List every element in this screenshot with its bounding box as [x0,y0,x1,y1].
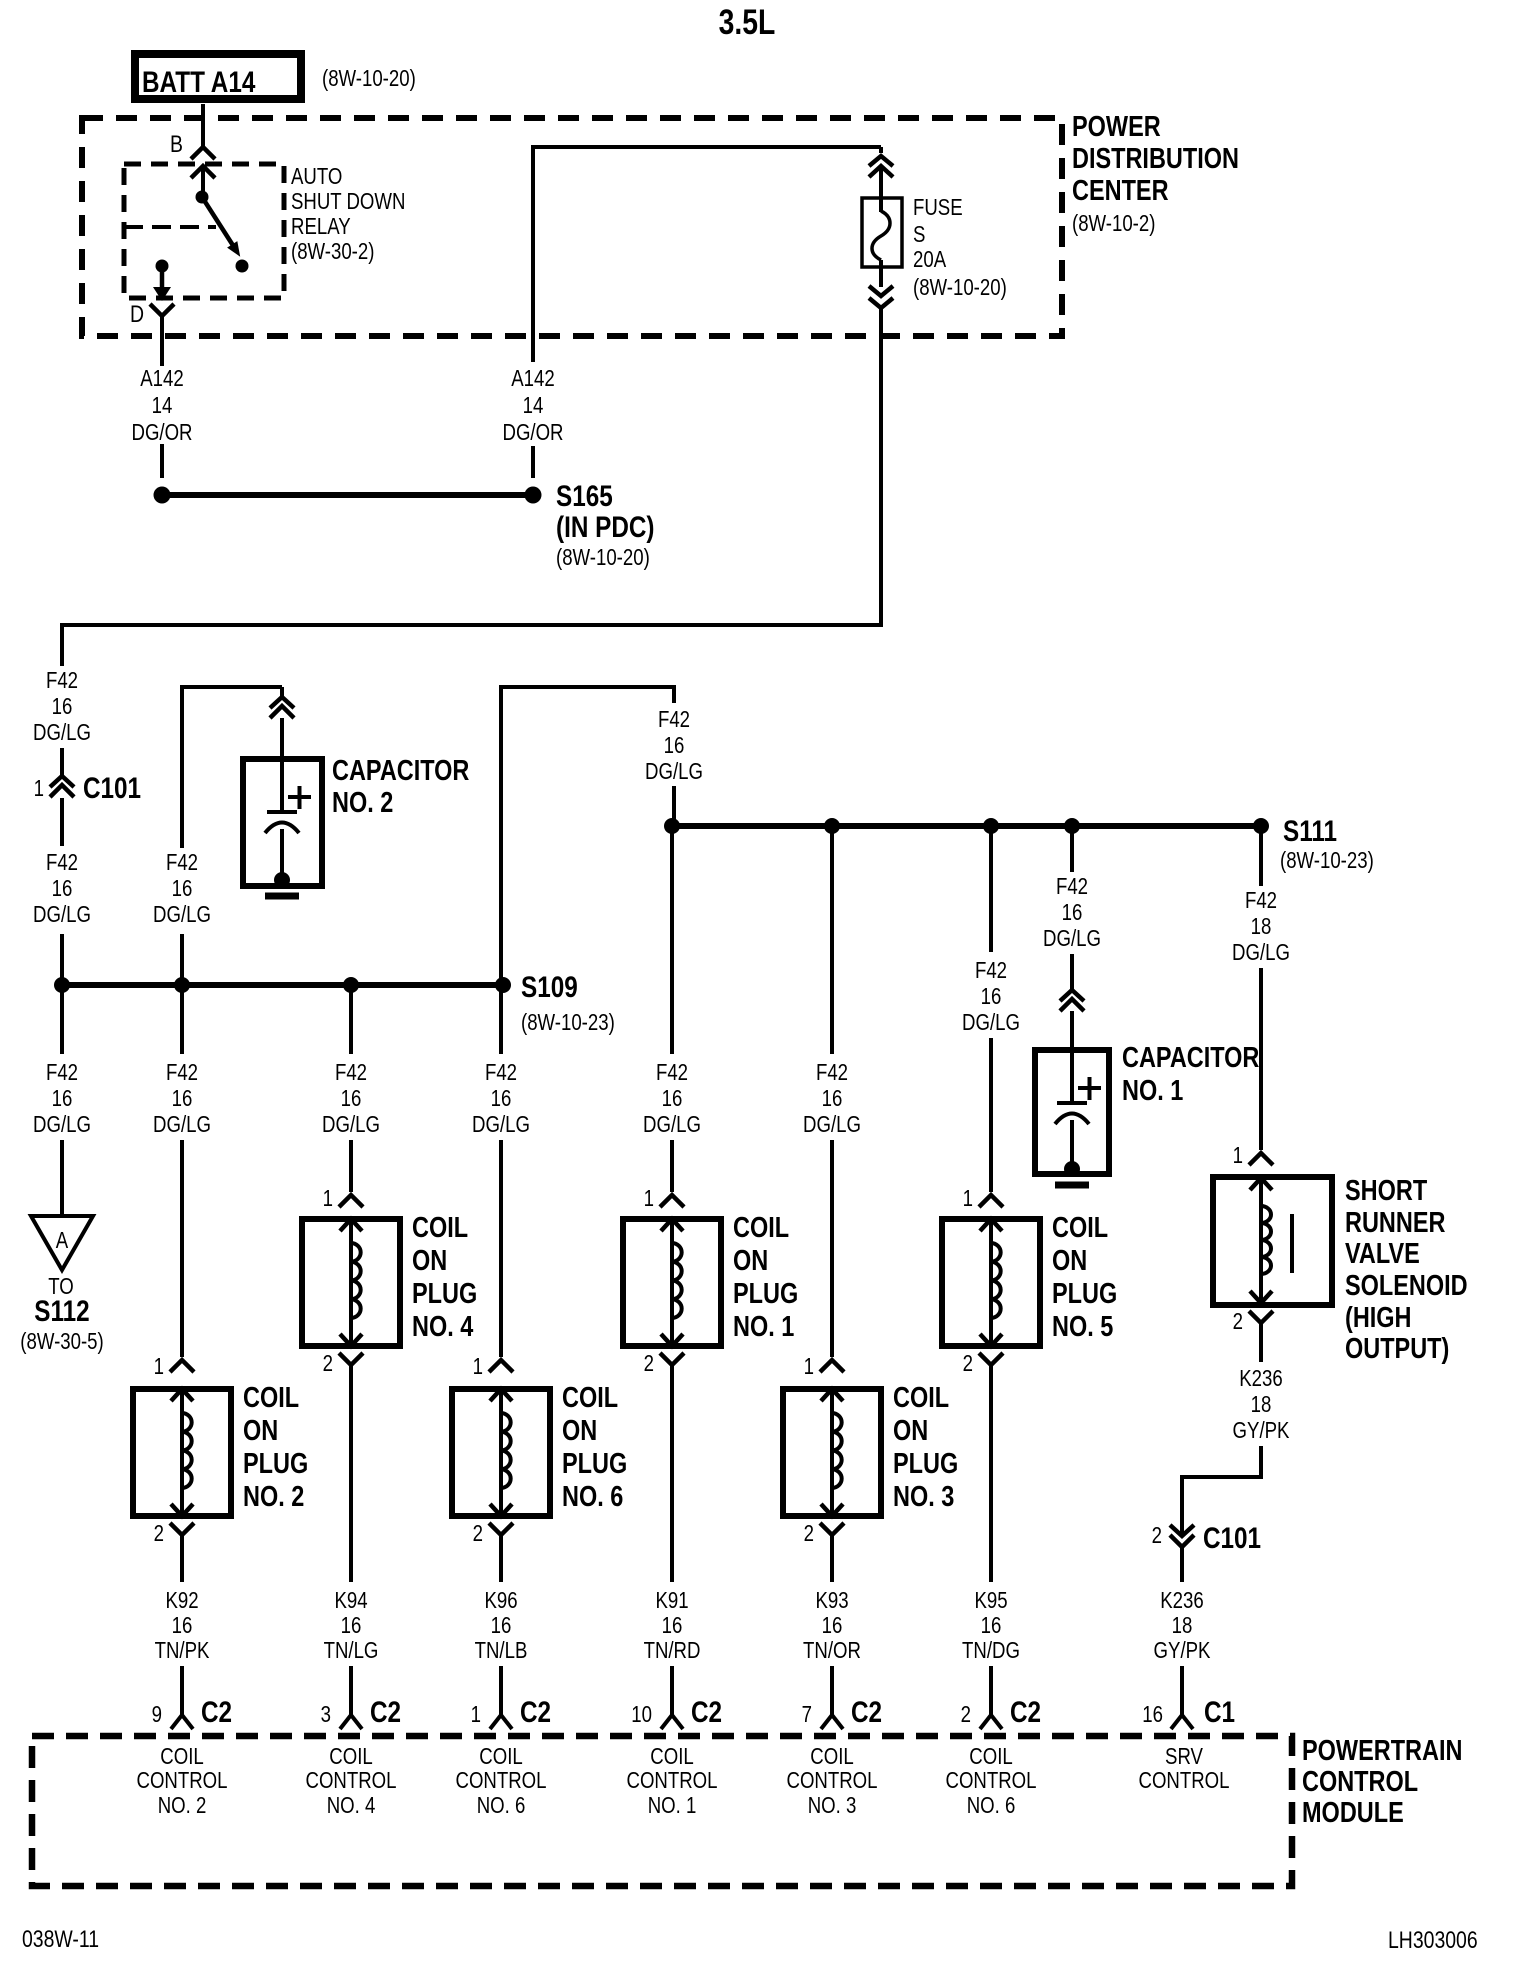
svg-text:A: A [56,1228,68,1253]
capacitor C2 box (capacitor no.2) [243,759,322,886]
svg-text:TN/LG: TN/LG [324,1638,379,1663]
capacitor no.1 internal wire and plates [1055,1011,1089,1166]
svg-text:(8W-30-5): (8W-30-5) [20,1329,103,1354]
label (8W-10-20) battery feed [322,66,416,91]
label TO S112 (8W-30-5) [20,1274,103,1354]
label COIL CONTROL NO. 6 (pin at x=991) [946,1744,1037,1818]
relay output node [156,260,169,273]
svg-text:16: 16 [52,694,73,719]
svg-text:NO. 6: NO. 6 [477,1793,526,1818]
capacitor no.2 ground node [274,872,290,888]
svg-text:VALVE: VALVE [1345,1237,1420,1270]
svg-text:OUTPUT): OUTPUT) [1345,1332,1449,1365]
svg-text:16: 16 [662,1086,683,1111]
svg-text:NO. 3: NO. 3 [808,1793,857,1818]
svg-text:1: 1 [471,1702,481,1727]
svg-text:10: 10 [631,1702,652,1727]
svg-text:TN/OR: TN/OR [803,1638,861,1663]
wire label F42 16 DG/LG S111 feed [645,707,703,784]
svg-text:DG/LG: DG/LG [1043,926,1101,951]
connector fork PCM pin 9 [171,1715,193,1729]
svg-text:CONTROL: CONTROL [137,1768,228,1793]
wire A142 from S165 up to fuse [531,145,881,478]
capacitor no.1 ground node [1064,1161,1080,1177]
svg-text:CAPACITOR: CAPACITOR [1122,1041,1259,1074]
svg-text:14: 14 [523,393,544,418]
svg-text:038W-11: 038W-11 [22,1925,99,1952]
wire coil no.3 to PCM (K93) [830,1535,834,1582]
svg-text:F42: F42 [46,1060,78,1085]
svg-text:16: 16 [341,1613,362,1638]
svg-text:DG/LG: DG/LG [1232,940,1290,965]
svg-text:CAPACITOR: CAPACITOR [332,754,469,787]
svg-text:K236: K236 [1239,1366,1282,1391]
wire into capacitor no.1 [1070,954,1074,990]
wire S109 to S111 bridge [499,685,676,982]
svg-text:F42: F42 [975,958,1007,983]
label pin 1 coil no.4 [323,1186,333,1211]
junction node S109 at coil no.4 branch [343,977,359,993]
label S109 (8W-10-23) [521,970,615,1036]
connector coil no.1 pin 1 [660,1195,684,1207]
svg-text:DG/LG: DG/LG [33,902,91,927]
svg-text:F42: F42 [1245,888,1277,913]
wire label K236 18 GY/PK lower [1154,1588,1211,1663]
svg-text:SHUT DOWN: SHUT DOWN [291,189,405,214]
connector coil no.5 pin 2 [979,1353,1003,1365]
wire label K93 16 TN/OR [803,1588,861,1663]
wire into C101 pin 1 [60,748,64,776]
svg-text:16: 16 [52,876,73,901]
svg-text:2: 2 [1233,1309,1243,1334]
svg-text:CONTROL: CONTROL [787,1768,878,1793]
svg-text:K96: K96 [484,1588,517,1613]
svg-text:16: 16 [981,1613,1002,1638]
coil no.1 winding [661,1219,683,1346]
svg-text:SHORT: SHORT [1345,1174,1427,1207]
ground tick below capacitor no.1 [1055,1182,1089,1189]
wire label K236 18 GY/PK upper [1233,1366,1290,1443]
connector coil no.6 pin 2 [489,1523,513,1535]
connector coil no.3 pin 1 [820,1360,844,1372]
svg-text:16: 16 [172,876,193,901]
powertrain control module dashed box [32,1736,1292,1886]
svg-text:7: 7 [802,1702,812,1727]
svg-text:SRV: SRV [1165,1744,1203,1769]
coil on plug no.3 box [783,1389,881,1516]
label CAPACITOR NO. 2 [332,754,469,819]
auto shut down relay dashed box [124,164,284,298]
wire label F42 16 DG/LG triangle branch [33,1060,91,1137]
wire coil no.1 to PCM (K91) [670,1365,674,1582]
power distribution center dashed box [82,118,1062,336]
label pin 2 coil no.4 [323,1351,333,1376]
svg-text:COIL: COIL [1052,1211,1108,1244]
svg-text:F42: F42 [46,668,78,693]
label SHORT RUNNER VALVE SOLENOID (HIGH OUTPUT) [1345,1174,1468,1365]
wire fuse output to F42 branch [60,306,883,666]
svg-text:F42: F42 [658,707,690,732]
svg-text:(8W-10-23): (8W-10-23) [521,1010,615,1035]
capacitor no.1 polarity + [1078,1077,1101,1100]
label pin 2 coil no.5 [963,1351,973,1376]
connector fork PCM pin 10 [661,1715,683,1729]
splice S109 bus wire [62,982,503,988]
label COIL ON PLUG NO. 6 [562,1381,627,1513]
svg-text:14: 14 [152,393,173,418]
label S165 (IN PDC) (8W-10-20) [556,479,654,571]
connector C101 pin 2 [1170,1525,1194,1547]
wire to SRV solenoid pin 1 [1259,968,1263,1150]
svg-text:ON: ON [562,1414,597,1447]
svg-text:NO. 2: NO. 2 [158,1793,207,1818]
svg-text:(HIGH: (HIGH [1345,1301,1412,1334]
svg-text:F42: F42 [335,1060,367,1085]
svg-text:2: 2 [644,1351,654,1376]
label pin 1 coil no.6 [473,1354,483,1379]
label pin 1 SRV solenoid [1233,1143,1243,1168]
svg-text:1: 1 [34,776,44,801]
svg-text:TN/RD: TN/RD [644,1638,701,1663]
svg-text:K236: K236 [1160,1588,1203,1613]
wire coil no.2 to PCM (K92) [180,1535,184,1582]
wire label F42 16 DG/LG coil no.6 [472,1060,530,1137]
label COIL ON PLUG NO. 1 [733,1211,798,1343]
capacitor C1 box (capacitor no.1) [1035,1050,1109,1174]
label COIL CONTROL NO. 6 (pin at x=501) [456,1744,547,1818]
short runner valve solenoid box [1213,1177,1332,1305]
svg-text:DG/OR: DG/OR [131,420,192,445]
svg-text:C101: C101 [1203,1521,1261,1555]
svg-text:ON: ON [733,1244,768,1277]
svg-text:C2: C2 [691,1695,722,1729]
svg-text:NO. 4: NO. 4 [412,1310,474,1343]
connector coil no.5 pin 1 [979,1195,1003,1207]
coil no.5 winding [980,1219,1002,1346]
wire label F42 18 DG/LG [1232,888,1290,965]
relay output arrow to pin D [153,266,171,301]
svg-text:ON: ON [1052,1244,1087,1277]
wire coil no.5 to PCM (K95) [989,1365,993,1582]
svg-text:CONTROL: CONTROL [946,1768,1037,1793]
wire label F42 16 DG/LG coil no.3 [803,1060,861,1137]
relay switch arm [202,197,240,257]
svg-text:A142: A142 [511,366,554,391]
wire into PCM pin 10 [670,1666,674,1717]
label A in triangle [56,1228,68,1253]
svg-text:CONTROL: CONTROL [456,1768,547,1793]
wire label F42 16 DG/LG coil no.2 [153,1060,211,1137]
wire into PCM pin 3 [349,1666,353,1717]
svg-text:(8W-10-2): (8W-10-2) [1072,211,1155,236]
svg-text:DG/LG: DG/LG [962,1010,1020,1035]
label COIL ON PLUG NO. 2 [243,1381,308,1513]
svg-text:F42: F42 [166,1060,198,1085]
wire label F42 16 DG/LG capacitor no.1 [1043,874,1101,951]
svg-text:COIL: COIL [969,1744,1012,1769]
svg-text:COIL: COIL [893,1381,949,1414]
label pin 2 coil no.3 [804,1521,814,1546]
svg-text:18: 18 [1172,1613,1193,1638]
svg-text:A142: A142 [140,366,183,391]
label POWERTRAIN CONTROL MODULE [1302,1734,1462,1829]
wire label K91 16 TN/RD [644,1588,701,1663]
svg-text:9: 9 [152,1702,162,1727]
wire S111 to capacitor no.1 [1070,829,1074,872]
svg-text:16: 16 [822,1613,843,1638]
svg-text:ON: ON [243,1414,278,1447]
wire into PCM pin 7 [830,1666,834,1717]
junction node at S165 left end [154,487,171,504]
svg-text:TN/PK: TN/PK [155,1638,210,1663]
svg-text:16: 16 [822,1086,843,1111]
wire into PCM pin 1 [499,1666,503,1717]
svg-text:2: 2 [473,1521,483,1546]
svg-text:(8W-10-20): (8W-10-20) [913,275,1007,300]
svg-text:DG/LG: DG/LG [643,1112,701,1137]
svg-text:B: B [170,130,183,157]
label 1 C101 [34,771,141,805]
svg-text:20A: 20A [913,247,946,272]
label COIL ON PLUG NO. 3 [893,1381,958,1513]
connector fork PCM pin 3 [340,1715,362,1729]
wire BATT A14 to relay pin B [201,104,205,148]
svg-text:PLUG: PLUG [243,1447,308,1480]
svg-text:CONTROL: CONTROL [1302,1765,1418,1798]
svg-text:3.5L: 3.5L [719,2,776,42]
svg-text:K91: K91 [655,1588,688,1613]
svg-text:K92: K92 [165,1588,198,1613]
svg-text:DG/LG: DG/LG [472,1112,530,1137]
svg-text:NO. 2: NO. 2 [332,786,393,819]
label S111 (8W-10-23) [1280,814,1374,874]
label pin 9 C2 [152,1695,232,1729]
splice S165 bus wire [162,492,533,498]
label pin 1 coil no.2 [154,1354,164,1379]
wire into PCM pin 2 [989,1666,993,1717]
fuse S box [862,198,902,267]
label COIL ON PLUG NO. 5 [1052,1211,1117,1343]
svg-text:AUTO: AUTO [291,164,342,189]
svg-text:PLUG: PLUG [733,1277,798,1310]
wire label A142 14 DG/OR right [502,366,563,445]
coil on plug no.1 box [623,1219,721,1346]
connector capacitor no.2 [270,697,294,718]
svg-text:CONTROL: CONTROL [1139,1768,1230,1793]
wire label F42 16 DG/LG coil no.1 [643,1060,701,1137]
svg-text:F42: F42 [816,1060,848,1085]
svg-text:1: 1 [154,1354,164,1379]
label pin 2 coil no.1 [644,1351,654,1376]
svg-text:(8W-30-2): (8W-30-2) [291,239,374,264]
svg-text:1: 1 [1233,1143,1243,1168]
svg-text:NO. 5: NO. 5 [1052,1310,1113,1343]
junction node S109 [495,977,511,993]
junction node S165 [525,487,542,504]
svg-text:S: S [913,222,925,247]
title label 3.5L [719,2,776,42]
coil on plug no.6 box [452,1389,550,1516]
svg-text:LH303006: LH303006 [1388,1926,1478,1953]
connector fork PCM pin 16 [1171,1715,1193,1729]
wire label K92 16 TN/PK [155,1588,210,1663]
connector fork PCM pin 7 [821,1715,843,1729]
svg-text:C2: C2 [851,1695,882,1729]
junction node S111 [1253,818,1269,834]
coil no.2 winding [171,1389,193,1516]
wire S111 to SRV solenoid [1259,829,1263,886]
wire label K96 16 TN/LB [475,1588,528,1663]
svg-text:F42: F42 [485,1060,517,1085]
svg-text:BATT A14: BATT A14 [142,65,256,99]
svg-text:RUNNER: RUNNER [1345,1206,1445,1239]
svg-text:16: 16 [491,1086,512,1111]
svg-text:NO. 2: NO. 2 [243,1480,304,1513]
svg-text:PLUG: PLUG [562,1447,627,1480]
label drawing number LH303006 [1388,1926,1478,1953]
label pin 2 SRV solenoid [1233,1309,1243,1334]
svg-text:1: 1 [473,1354,483,1379]
svg-text:2: 2 [323,1351,333,1376]
wire supply to coil no.4 [349,988,353,1192]
svg-text:COIL: COIL [329,1744,372,1769]
svg-text:16: 16 [52,1086,73,1111]
wire SRV solenoid pin 2 down (K236) [1259,1323,1263,1362]
junction node S111 at capacitor no.1 branch [1064,818,1080,834]
svg-text:COIL: COIL [412,1211,468,1244]
svg-text:2: 2 [961,1702,971,1727]
wire label A142 14 DG/OR left [131,366,192,445]
wire supply to coil no.2 [180,988,184,1357]
off-page reference triangle A [31,1216,93,1270]
SRV solenoid winding [1250,1178,1272,1303]
label pin 10 C2 [631,1695,722,1729]
coil on plug no.2 box [133,1389,231,1516]
label COIL CONTROL NO. 4 (pin at x=351) [306,1744,397,1818]
svg-text:S112: S112 [34,1294,89,1328]
svg-text:PLUG: PLUG [893,1447,958,1480]
svg-text:MODULE: MODULE [1302,1796,1404,1829]
svg-text:C101: C101 [83,771,141,805]
svg-text:1: 1 [963,1186,973,1211]
svg-text:COIL: COIL [479,1744,522,1769]
wire label K95 16 TN/DG [962,1588,1020,1663]
svg-text:DG/LG: DG/LG [153,902,211,927]
svg-text:ON: ON [412,1244,447,1277]
wire coil no.4 to PCM (K94) [349,1365,353,1582]
connector at relay pin D [150,304,174,333]
svg-text:DG/LG: DG/LG [33,720,91,745]
label pin B [170,130,183,157]
svg-text:DG/LG: DG/LG [153,1112,211,1137]
connector SRV solenoid pin 2 [1249,1311,1273,1323]
svg-text:(8W-10-20): (8W-10-20) [556,545,650,570]
svg-text:DG/LG: DG/LG [322,1112,380,1137]
svg-text:K95: K95 [974,1588,1007,1613]
wire label F42 16 DG/LG capacitor no.2 branch [153,850,211,927]
connector coil no.4 pin 1 [339,1195,363,1207]
label AUTO SHUT DOWN RELAY (8W-30-2) [291,164,405,264]
svg-text:PLUG: PLUG [1052,1277,1117,1310]
svg-text:NO. 4: NO. 4 [327,1793,376,1818]
wire label F42 16 DG/LG above C101 [33,668,91,745]
connector C101 pin 1 [50,776,74,797]
svg-text:DG/LG: DG/LG [33,1112,91,1137]
wire C101 to PCM (K236) [1180,1547,1184,1582]
ground tick below capacitor no.2 [265,893,299,900]
connector above fuse S [869,156,893,212]
label BATT A14 [142,65,256,99]
label pin 1 C2 [471,1695,551,1729]
label CAPACITOR NO. 1 [1122,1041,1259,1107]
svg-text:F42: F42 [1056,874,1088,899]
label POWER DISTRIBUTION CENTER (8W-10-2) [1072,110,1239,237]
coil no.3 winding [821,1389,843,1516]
connector coil no.6 pin 1 [489,1360,513,1372]
label sheet number 038W-11 [22,1925,99,1952]
svg-text:RELAY: RELAY [291,214,351,239]
wire into PCM pin 9 [180,1666,184,1717]
junction node S111 at coil no.1 branch [664,818,680,834]
label pin 2 coil no.6 [473,1521,483,1546]
relay pivot node [196,191,209,204]
svg-text:1: 1 [323,1186,333,1211]
label pin 1 coil no.1 [644,1186,654,1211]
svg-text:SOLENOID: SOLENOID [1345,1269,1468,1302]
svg-text:18: 18 [1251,914,1272,939]
wire K236 jog to C101 [1180,1446,1263,1535]
svg-text:CONTROL: CONTROL [306,1768,397,1793]
svg-text:(8W-10-23): (8W-10-23) [1280,848,1374,873]
svg-text:DG/LG: DG/LG [803,1112,861,1137]
label COIL CONTROL NO. 3 (pin at x=832) [787,1744,878,1818]
svg-text:DG/LG: DG/LG [645,759,703,784]
relay internal dashed divider [124,225,216,229]
svg-text:NO. 1: NO. 1 [1122,1074,1183,1107]
wire label F42 16 DG/LG coil no.5 [962,958,1020,1035]
svg-text:COIL: COIL [562,1381,618,1414]
connector at relay pin B [191,147,215,193]
svg-text:NO. 3: NO. 3 [893,1480,954,1513]
label 2 C101 [1152,1521,1261,1555]
svg-text:COIL: COIL [243,1381,299,1414]
svg-text:CENTER: CENTER [1072,174,1169,207]
svg-text:D: D [130,300,144,327]
connector fork PCM pin 1 [490,1715,512,1729]
svg-text:C2: C2 [201,1695,232,1729]
capacitor no.2 internal wire and plates [265,718,299,876]
splice S111 bus wire [672,823,1261,829]
relay contact node [236,260,249,273]
connector coil no.2 pin 1 [170,1360,194,1372]
connector SRV solenoid pin 1 [1249,1153,1273,1165]
label SRV CONTROL [1139,1744,1230,1793]
svg-text:S111: S111 [1283,814,1337,848]
connector coil no.1 pin 2 [660,1353,684,1365]
wire S109 to capacitor no.2 [180,685,282,982]
junction node S109 at triangle branch [54,977,70,993]
svg-text:K94: K94 [334,1588,367,1613]
svg-text:2: 2 [154,1521,164,1546]
svg-text:TN/LB: TN/LB [475,1638,528,1663]
label COIL CONTROL NO. 2 (pin at x=182) [137,1744,228,1818]
connector fork PCM pin 2 [980,1715,1002,1729]
svg-text:PLUG: PLUG [412,1277,477,1310]
connector coil no.4 pin 2 [339,1353,363,1365]
coil on plug no.4 box [302,1219,400,1346]
svg-text:16: 16 [664,733,685,758]
wire S109 to off-page triangle A [60,988,64,1216]
